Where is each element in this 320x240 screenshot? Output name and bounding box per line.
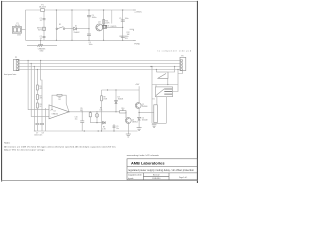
svg-text:Page 1 of 1: Page 1 of 1 [179, 177, 187, 179]
wire: coil bottom link [152, 122, 166, 124]
wire: divider tap down [44, 108, 46, 131]
svg-text:Adjust VR1 for desired output: Adjust VR1 for desired output voltage. [4, 149, 45, 152]
svg-text:D1: D1 [75, 26, 77, 28]
fuse F1 [41, 9, 45, 12]
wire: top AC rail [26, 9, 134, 11]
svg-text:www.amb.org / audio / e12 / sc: www.amb.org / audio / e12 / schematic [127, 154, 159, 157]
wire: chassis drop [40, 40, 42, 44]
svg-text:1N4002: 1N4002 [74, 32, 80, 34]
wire: bus line 1 [19, 60, 180, 62]
svg-text:P2: P2 [15, 57, 17, 59]
svg-text:1N4148: 1N4148 [142, 120, 148, 122]
wire: K1-A right link [174, 66, 175, 67]
capacitor C3 [87, 16, 91, 17]
svg-text:P3: P3 [181, 55, 183, 57]
wire: feedback stub [111, 10, 113, 24]
wire: Q2 collector to coil [139, 112, 154, 114]
svg-text:Q1: Q1 [132, 119, 134, 121]
capacitor C4 [87, 34, 91, 35]
capacitor C6 [121, 36, 125, 37]
connector P2 (front panel) [14, 59, 20, 70]
svg-text:100n: 100n [125, 18, 129, 20]
wire: D1 to branch 3 [77, 28, 89, 30]
resistor R2 [37, 95, 39, 100]
svg-text:R12: R12 [127, 32, 130, 34]
wire: drop 5 [41, 61, 42, 86]
wire: vertical branch 4 [103, 10, 105, 40]
resistor R10 [120, 111, 127, 113]
wire: bus line 3 [19, 66, 180, 68]
svg-text:U2: U2 [54, 111, 56, 113]
title block [127, 159, 197, 180]
connector P1 (AC inlet) [12, 27, 21, 34]
wire: P1 to vertical [22, 29, 26, 31]
svg-text:R5: R5 [80, 108, 82, 110]
relay coil K1 [154, 105, 158, 123]
wire: feedback loop with resistor R4 [52, 95, 69, 112]
wire: lower link [90, 122, 105, 124]
transistor Q4 (pass element) [96, 24, 103, 31]
wire: D4 to ground [138, 120, 140, 128]
capacitor C9 [113, 124, 115, 131]
svg-text:R3: R3 [40, 104, 42, 106]
wire: junction row [152, 84, 178, 86]
wire: vertical branch 5 [122, 10, 124, 40]
svg-text:R10: R10 [121, 108, 124, 110]
svg-text:R4: R4 [58, 97, 60, 99]
svg-text:AMB Laboratories: AMB Laboratories [131, 161, 165, 166]
svg-text:All resistors are 1/4W 1% meta: All resistors are 1/4W 1% metal film typ… [4, 145, 116, 148]
capacitor C5 [121, 20, 125, 21]
svg-text:R7: R7 [103, 127, 105, 129]
svg-text:C10: C10 [75, 116, 78, 118]
wire: K1-B right [177, 69, 178, 70]
op-amp U2 [49, 105, 69, 119]
connector P3 (component side) [180, 57, 186, 70]
capacitor C10 [82, 111, 83, 112]
svg-text:C9: C9 [116, 126, 118, 128]
relay contact K1-B [155, 87, 172, 97]
wire: contact common down [165, 97, 167, 124]
wire: R stack segments [37, 85, 42, 123]
svg-text:10u: 10u [75, 118, 78, 120]
svg-text:D3: D3 [118, 96, 120, 98]
capacitor C7 [35, 123, 39, 124]
svg-text:X2: X2 [40, 38, 42, 40]
ground symbol below D4 [137, 128, 142, 131]
svg-text:Notes:: Notes: [4, 142, 10, 145]
wire: Q2 top [138, 90, 140, 103]
diode D4 [138, 117, 141, 120]
ground symbol below Q1 [126, 134, 131, 137]
svg-text:2N3906: 2N3906 [142, 106, 148, 108]
resistor R11 [103, 20, 105, 25]
svg-text:11-28-2010: 11-28-2010 [152, 178, 160, 180]
svg-text:Q2: Q2 [142, 104, 144, 106]
svg-text:Q4: Q4 [98, 22, 100, 24]
svg-text:R1: R1 [40, 86, 42, 88]
wire: drop 1 to op-amp non-inverting input [28, 61, 49, 110]
svg-text:1000u: 1000u [92, 17, 97, 19]
wire: drop 3 to ground rail [34, 67, 36, 132]
wire: op-amp output [69, 111, 120, 113]
wire: Q2 collector down [138, 108, 140, 117]
diode D1 [74, 27, 77, 30]
wire: P3 bottom link [178, 71, 183, 74]
wire: vertical branch 1 [55, 10, 57, 40]
switch S1 [56, 27, 65, 30]
svg-text:C5: C5 [119, 18, 121, 20]
ground chassis symbol [27, 45, 57, 47]
svg-text:2N3904: 2N3904 [132, 121, 138, 123]
svg-text:regulated power supply muting: regulated power supply muting delay / dc… [128, 169, 195, 172]
node: rail junctions [56, 9, 123, 41]
svg-text:100u: 100u [125, 36, 129, 38]
svg-text:P1: P1 [16, 23, 18, 25]
svg-text:5A 250V: 5A 250V [39, 6, 47, 9]
node: +24V net flag [133, 9, 136, 11]
wire: ground rail [34, 130, 138, 132]
svg-text:+24VDC: +24VDC [134, 11, 142, 13]
svg-text:100u: 100u [89, 44, 93, 46]
wire: bottom return rail [26, 39, 134, 41]
wire: bus line 2 [19, 63, 180, 65]
svg-text:1N4148: 1N4148 [118, 98, 124, 100]
wire: switch to D1 [65, 28, 73, 30]
svg-text:to component side pcb: to component side pcb [158, 49, 192, 52]
svg-text:S1: S1 [59, 24, 61, 26]
svg-text:X2: X2 [40, 20, 42, 22]
wire: vertical branch 2 [71, 10, 73, 40]
node: fuse bottom junction [40, 40, 41, 41]
wire: +24V feed top [102, 86, 140, 90]
node: bus taps [28, 60, 157, 70]
capacitor C2 [43, 36, 46, 37]
wire: K1-B to coil [156, 97, 158, 105]
resistor R8 [101, 90, 103, 131]
wire: drop 4 to divider [36, 70, 38, 86]
wire: bus line 4 [19, 69, 180, 71]
varistor MOV1 [43, 27, 46, 30]
diode D5 [103, 121, 106, 124]
svg-text:OPA134: OPA134 [52, 113, 58, 116]
transistor Q2 [135, 103, 141, 109]
svg-text:V275: V275 [38, 30, 42, 32]
svg-text:front panel wire: front panel wire [4, 73, 16, 76]
transistor Q1 [125, 112, 131, 124]
svg-text:10u: 10u [116, 128, 119, 130]
relay contact K1-A [155, 70, 157, 73]
svg-text:R2: R2 [40, 95, 42, 97]
node: PGND net flag [133, 39, 136, 41]
wire: bus line 3 long drop [151, 66, 152, 67]
ground below coil [152, 125, 157, 128]
capacitor C8 [40, 123, 44, 124]
svg-text:by amb: by amb [128, 178, 133, 180]
wire: Q1 emitter to ground [127, 123, 129, 134]
resistor R12 [130, 29, 134, 31]
diode D3 [115, 90, 117, 112]
svg-text:C6: C6 [119, 36, 121, 38]
svg-text:K1: K1 [153, 99, 155, 101]
wire: left vertical from P1 [25, 10, 27, 40]
resistor R1 [37, 85, 39, 90]
capacitor C1 [43, 12, 45, 41]
svg-text:D4: D4 [142, 118, 144, 120]
wire: U1 output [107, 26, 123, 28]
resistor R3 [37, 103, 39, 108]
wire: drop 2 to op-amp inverting input [31, 64, 49, 117]
svg-text:PGND: PGND [134, 44, 140, 46]
regulator U1 [103, 25, 107, 28]
wire: vertical branch 3 [88, 10, 90, 40]
svg-text:Rev 1.02: Rev 1.02 [153, 175, 159, 177]
svg-text:R8: R8 [103, 96, 105, 98]
svg-text:100n 100n: 100n 100n [34, 135, 42, 137]
